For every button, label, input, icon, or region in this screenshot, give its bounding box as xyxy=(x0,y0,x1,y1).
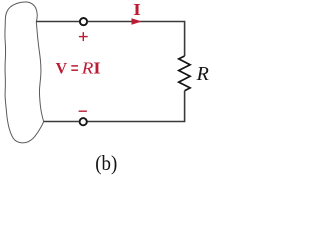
svg-text:(b): (b) xyxy=(95,152,117,175)
terminal (bottom, open circle) xyxy=(80,118,87,125)
svg-text:R: R xyxy=(196,63,209,85)
wire: bottom terminal to blob xyxy=(44,121,80,123)
svg-text:V: V xyxy=(56,60,68,77)
network blob (hand-drawn two-terminal network outline) xyxy=(5,2,44,143)
svg-text:R: R xyxy=(81,58,94,77)
svg-text:I: I xyxy=(133,1,141,19)
wire: resistor to bottom-right corner to bottom terminal xyxy=(87,91,185,122)
wire: top terminal to top-right corner and down to resistor xyxy=(87,22,184,57)
current arrowhead on top wire xyxy=(132,18,142,25)
resistor R (zigzag) xyxy=(179,56,190,91)
wire: blob to top terminal xyxy=(37,21,81,23)
svg-text:I: I xyxy=(93,58,100,77)
polarity − xyxy=(79,110,87,112)
polarity + xyxy=(79,32,88,41)
terminal (top, open circle) xyxy=(80,18,87,25)
